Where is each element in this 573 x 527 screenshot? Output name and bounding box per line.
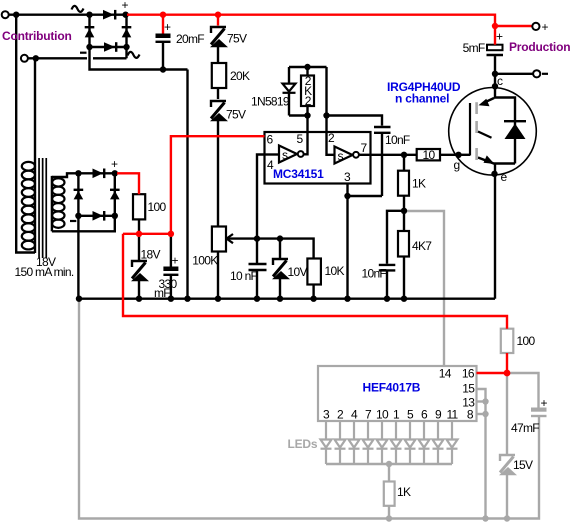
svg-text:7: 7: [365, 408, 372, 422]
wire: B1 bottom-left down then right to ground drop: [90, 47, 188, 70]
node: 20mF bottom junction: [160, 66, 166, 72]
svg-text:1N5819: 1N5819: [251, 95, 290, 109]
wire: red to + terminal: [495, 25, 532, 27]
wire: red top bus from B1 +: [127, 15, 495, 26]
zener D4 18V: [131, 234, 149, 299]
node: gray junction pin 8: [482, 411, 488, 417]
svg-text:100: 100: [517, 334, 536, 348]
wire: down to transformer primary bottom: [16, 15, 35, 253]
svg-text:LEDs: LEDs: [288, 437, 318, 451]
wire: red up to MC34151 pin 6: [171, 136, 265, 234]
LEDs row: [321, 421, 458, 464]
node: 2K2 bottom / pin 5 junction: [304, 112, 310, 118]
transformer T1 primary coil: [22, 162, 35, 250]
wire: gray stub HEF pin 13: [477, 400, 486, 402]
zener D2 75V (bottom): [210, 101, 228, 227]
capacitor C5 10nF: [379, 265, 396, 299]
wire: pin 7 output line: [371, 154, 418, 156]
svg-text:+: +: [122, 0, 129, 12]
node: red dot at 20mF: [162, 15, 164, 34]
wire: collector internal: [495, 74, 515, 164]
svg-text:6: 6: [421, 408, 428, 422]
svg-text:e: e: [501, 170, 508, 184]
arrow: collector arrowhead: [479, 99, 490, 106]
diode D5 1N5819: [283, 67, 308, 116]
label: bottom pin numbers: [323, 408, 459, 422]
svg-text:2: 2: [328, 131, 335, 145]
node: emitter on circle: [491, 171, 497, 177]
wire: terminal 2 toward bridge (gap where it crosses bridge left leg): [28, 57, 87, 59]
wire: wiper line: [227, 239, 314, 259]
terminal: Production +: [532, 23, 539, 30]
inverter U1A: [279, 146, 304, 163]
svg-text:5: 5: [407, 408, 414, 422]
wire: red down to 5mF: [494, 26, 496, 45]
svg-text:Contribution: Contribution: [2, 29, 72, 43]
node: red dot at pin16 node: [504, 370, 511, 377]
node: B2 bottom-right: [112, 213, 118, 219]
wire: secondary backbone: [51, 176, 53, 231]
node: red dot at 330mF: [168, 231, 174, 237]
resistor R6 10 (gate): [417, 149, 440, 160]
wire: vertical drop to ground bus: [186, 70, 188, 299]
channel bar segment 1 (gray): [475, 102, 478, 114]
svg-text:2: 2: [337, 408, 344, 422]
wire: 10nF bottom to pin 3: [348, 195, 383, 197]
ground bus: [78, 298, 495, 300]
wire: primary winding backbone: [34, 58, 36, 253]
wire: pin 4 internal: [265, 153, 280, 155]
wire: emitter bottom internal: [478, 158, 515, 164]
transformer T1 secondary coil: [52, 178, 64, 228]
wire: gray stub HEF pin 8: [477, 413, 486, 415]
wire: B2 bottom-left to ground bus: [77, 216, 79, 299]
node: B1 bottom-right (~): [123, 44, 129, 50]
svg-text:16: 16: [462, 367, 475, 381]
node: red dot at 75V zener: [217, 15, 219, 26]
node: wiper / pin4 / 10nF junction: [254, 235, 260, 241]
capacitor C6 5mF: [487, 45, 504, 74]
svg-text:4: 4: [351, 408, 358, 422]
wire: red down-left to lower distribution: [123, 234, 507, 329]
svg-text:75V: 75V: [226, 108, 246, 122]
svg-text:1K: 1K: [397, 485, 411, 499]
capacitor C4 10nF (timing): [374, 127, 391, 196]
wire: 10 to gate: [440, 154, 459, 156]
svg-text:1K: 1K: [412, 177, 426, 191]
terminal: Contribution second input terminal: [21, 55, 28, 62]
wire: to 10nF timing cap: [327, 116, 383, 126]
pot wiper arrow: [227, 234, 234, 243]
label: - of production: [542, 73, 548, 75]
wire: red node line at 18V reg: [123, 233, 171, 235]
wire: gray wire from node down to 15V zener: [506, 373, 508, 455]
svg-text:4K7: 4K7: [412, 239, 432, 253]
resistor R5 2K2: [301, 76, 314, 107]
wire: pin 4 external down to wiper line: [257, 155, 265, 239]
svg-text:1: 1: [393, 408, 400, 422]
wire: body diagonal: [478, 132, 492, 138]
svg-text:+: +: [111, 157, 118, 171]
label: - at B2: [70, 220, 76, 222]
svg-text:c: c: [497, 74, 503, 88]
svg-text:+: +: [164, 20, 171, 34]
wire: pin 3 stub: [346, 184, 348, 197]
svg-text:5: 5: [297, 132, 304, 146]
svg-text:11: 11: [446, 408, 458, 422]
node: 2K2 top junction: [289, 66, 327, 68]
wire: pin 3 to ground bus: [346, 196, 348, 299]
zener D7 15V (gray): [499, 455, 517, 475]
resistor R8 4K7: [398, 211, 409, 299]
wire: secondary bottom to bridge 2 bottom-right: [52, 216, 115, 232]
wire: collector diagonal: [483, 98, 494, 103]
svg-text:5mF: 5mF: [463, 41, 485, 55]
wire: LED common bus (gray): [326, 463, 452, 465]
bridge rectifier B1 frame: [90, 15, 127, 47]
svg-text:47mF: 47mF: [511, 421, 539, 435]
arrow: emitter arrowhead: [484, 155, 495, 164]
svg-text:10K: 10K: [325, 264, 345, 278]
svg-text:n channel: n channel: [395, 92, 449, 106]
node: 1K at bottom bus: [386, 515, 392, 521]
resistor R1 20K: [212, 63, 226, 88]
label: - at B1 bottom-left: [80, 52, 87, 54]
wire: 10K to ground: [312, 285, 314, 299]
svg-text:9: 9: [435, 408, 442, 422]
node: gray junction at bottom bus: [482, 515, 488, 521]
resistor R10 100 (gray box, charge path): [501, 329, 514, 353]
resistor R4 100 (18V reg): [133, 194, 145, 219]
channel bar segment 2 (gray): [475, 121, 478, 133]
channel bar segment 3 (gray): [475, 148, 478, 160]
svg-text:+: +: [541, 396, 548, 410]
wire: gate lead: [459, 154, 471, 156]
node: red junction at production: [492, 23, 498, 29]
node: LED bus center: [386, 461, 392, 467]
node: pin 3 junction: [344, 193, 350, 199]
node: pin 2 / 10nF junction: [323, 112, 329, 118]
wire: red from 100 gray resistor to pin16 node: [506, 353, 508, 373]
wire: emitter down to ground bus: [494, 164, 496, 299]
svg-text:10: 10: [376, 408, 389, 422]
wire: red pin 16: [477, 372, 508, 374]
svg-text:g: g: [454, 158, 460, 172]
svg-text:7: 7: [361, 141, 368, 155]
svg-text:18V: 18V: [141, 248, 161, 262]
svg-text:15: 15: [462, 382, 475, 396]
svg-text:s: s: [338, 149, 344, 163]
wire: pin 7 internal: [359, 154, 371, 156]
diode B2 right (pointing up): [110, 189, 120, 200]
potentiometer R2 100K: [212, 227, 226, 252]
diode D6 freewheel inside IGBT: [504, 120, 526, 139]
transformer T1 core: [38, 158, 47, 258]
svg-text:s: s: [282, 148, 288, 162]
zener D3 10V: [272, 239, 290, 299]
wire: gray stub HEF pin 15 to right vertical: [477, 389, 486, 519]
inverter U1B: [335, 147, 359, 164]
diode B2 left (pointing up): [74, 189, 84, 200]
capacitor C3 330mF: [163, 234, 178, 299]
resistor R7 1K: [398, 155, 409, 211]
wire: 20K to second zener: [217, 88, 219, 99]
svg-text:2: 2: [305, 94, 312, 108]
svg-text:75V: 75V: [227, 32, 247, 46]
node: B2 bottom-left (-): [75, 213, 81, 219]
diode B1 bottom (pointing right): [104, 42, 117, 52]
svg-text:10nF: 10nF: [362, 267, 387, 281]
svg-text:100: 100: [148, 200, 167, 214]
resistor R9 1K (gray): [384, 464, 395, 519]
node: junction terminal 1 / transformer primary: [13, 12, 19, 18]
label: ~ at B1 top-left: [72, 6, 84, 12]
label: ~ at B1 bottom-right: [128, 52, 140, 58]
capacitor C1 20mF: [156, 34, 171, 70]
capacitor C2 10nF (pot): [249, 239, 267, 299]
bridge rectifier B2 frame: [78, 173, 114, 216]
wire: pin 5 internal: [304, 132, 308, 154]
diode B2 top (pointing right): [93, 169, 106, 179]
node: 1K / 4K7 junction: [401, 208, 407, 214]
svg-text:150 mA min.: 150 mA min.: [15, 265, 74, 279]
wire: red from B2 + to 100 resistor: [117, 173, 139, 194]
IC U2 HEF4017B box: [318, 366, 477, 421]
svg-text:10: 10: [423, 148, 436, 162]
node: pin7 / 1K junction: [401, 152, 407, 158]
node: B1 top-left: [86, 12, 92, 18]
op-amp U1 MC34151 box: [265, 132, 371, 184]
node: red dot at 100/18V: [136, 231, 142, 237]
node: B1 top-right (+): [122, 12, 128, 18]
diode B2 bottom (pointing right): [93, 211, 106, 221]
svg-text:10V: 10V: [288, 265, 308, 279]
node: B2 top-left: [75, 170, 81, 176]
wire: pin 2 internal: [327, 132, 335, 155]
wire: junction left to 10nF: [387, 211, 404, 264]
gate plate: [469, 103, 471, 156]
wire: terminal 2 wire continues to bridge bottom-right: [93, 57, 127, 59]
node: gate: [455, 152, 461, 158]
terminal: Contribution + input terminal: [2, 11, 9, 18]
svg-text:14: 14: [439, 367, 452, 381]
wire: secondary top to bridge 2: [52, 173, 79, 177]
wire: terminal 1 to bridge rectifier top left: [9, 13, 90, 15]
svg-text:3: 3: [323, 408, 330, 422]
svg-text:6: 6: [267, 133, 274, 147]
svg-text:100K: 100K: [192, 254, 218, 268]
svg-text:10nF: 10nF: [385, 133, 410, 147]
node: B1 bottom-left (-): [86, 44, 92, 50]
svg-text:+: +: [172, 254, 179, 268]
terminal: Production -: [533, 70, 540, 77]
svg-text:3: 3: [344, 170, 351, 184]
svg-text:HEF4017B: HEF4017B: [363, 381, 421, 395]
node: B2 top-right (+): [112, 170, 118, 176]
svg-text:10 nF: 10 nF: [230, 269, 258, 283]
svg-text:+: +: [542, 20, 549, 34]
svg-text:20mF: 20mF: [176, 32, 204, 46]
zener D1 75V (top): [210, 27, 228, 63]
capacitor C7 47mF (gray): [531, 408, 547, 417]
svg-text:8: 8: [467, 408, 474, 422]
svg-text:15V: 15V: [513, 458, 533, 472]
wire: to minus terminal: [495, 73, 533, 75]
node: bus dots: [76, 296, 407, 302]
node: collector on circle: [492, 83, 498, 89]
wire: gray wire 15V zener to bottom bus: [506, 475, 508, 519]
diode B1 top (pointing right): [103, 10, 116, 20]
wire: right branch from 2K2 top down to pin 2 node: [325, 67, 327, 132]
resistor R3 10K: [307, 259, 321, 285]
diode B1 right (pointing up): [122, 26, 132, 37]
transistor Q1 IRG4PH40UD circle: [449, 88, 537, 176]
wire: gray wire from 1K/4K7 junction to HEF4017B pin 14: [406, 211, 444, 366]
wire: gray wire from 100 ohm node right to 47mF capacitor: [507, 373, 539, 408]
node: wiper / 10V zener junction: [277, 235, 283, 241]
node: production minus junction: [492, 71, 498, 77]
node: junction terminal 2 / primary winding: [33, 55, 39, 61]
svg-text:Production: Production: [509, 40, 570, 54]
wire: pot bottom to ground: [217, 252, 219, 299]
svg-text:MC34151: MC34151: [273, 167, 324, 181]
wire: B1 bottom-right down to terminal2 line: [125, 47, 127, 58]
wire: gray wire from ground bus left end down to bottom gray bus: [79, 300, 539, 519]
wire: 100 bottom to red node: [138, 219, 140, 232]
wire: 2K2 bottom through to pin 5: [306, 106, 308, 132]
node: gray junction pin 13: [482, 398, 488, 404]
svg-text:20K: 20K: [230, 69, 250, 83]
diode B1 left (pointing up): [85, 26, 95, 37]
node: 15V zener at bottom bus: [504, 515, 510, 521]
svg-text:+: +: [496, 30, 503, 44]
